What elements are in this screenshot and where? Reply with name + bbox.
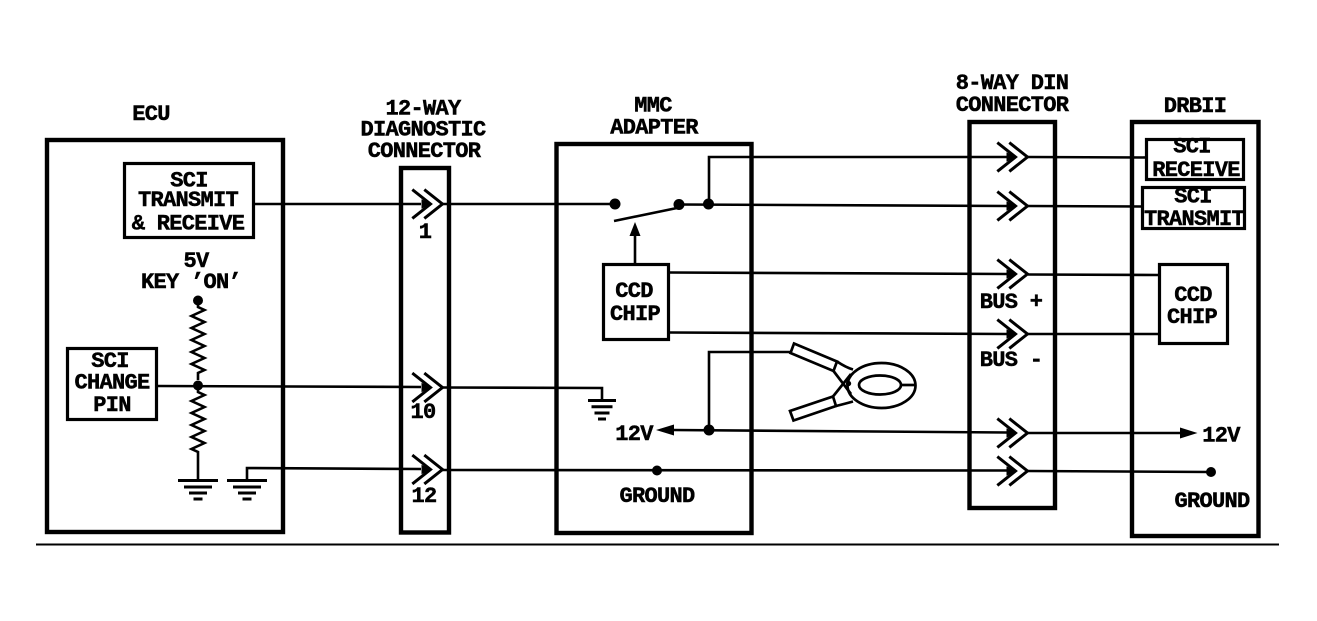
svg-text:KEY ’ON’: KEY ’ON’: [141, 270, 241, 295]
svg-text:10: 10: [410, 400, 435, 425]
svg-text:DRBII: DRBII: [1164, 94, 1227, 119]
svg-text:SCI: SCI: [1174, 185, 1212, 210]
svg-text:ECU: ECU: [132, 102, 170, 127]
svg-text:ADAPTER: ADAPTER: [610, 116, 699, 141]
svg-text:CCD: CCD: [615, 279, 653, 304]
svg-text:BUS +: BUS +: [980, 290, 1043, 315]
svg-text:CHIP: CHIP: [610, 302, 661, 327]
svg-text:CHIP: CHIP: [1167, 305, 1218, 330]
svg-text:TRANSMIT: TRANSMIT: [1144, 207, 1245, 232]
svg-text:RECEIVE: RECEIVE: [1152, 158, 1240, 183]
svg-text:PIN: PIN: [93, 393, 131, 418]
svg-text:1: 1: [419, 220, 432, 245]
svg-text:& RECEIVE: & RECEIVE: [132, 212, 245, 237]
svg-text:12V: 12V: [615, 422, 654, 447]
svg-text:GROUND: GROUND: [1174, 489, 1250, 514]
svg-text:CONNECTOR: CONNECTOR: [368, 139, 482, 164]
svg-text:GROUND: GROUND: [619, 484, 695, 509]
svg-text:12: 12: [411, 484, 436, 509]
svg-text:12V: 12V: [1202, 424, 1241, 449]
svg-text:CHANGE: CHANGE: [74, 371, 150, 396]
svg-text:CONNECTOR: CONNECTOR: [956, 93, 1070, 118]
svg-text:BUS -: BUS -: [980, 348, 1043, 373]
svg-text:TRANSMIT: TRANSMIT: [138, 188, 239, 213]
svg-text:SCI: SCI: [1173, 135, 1211, 160]
